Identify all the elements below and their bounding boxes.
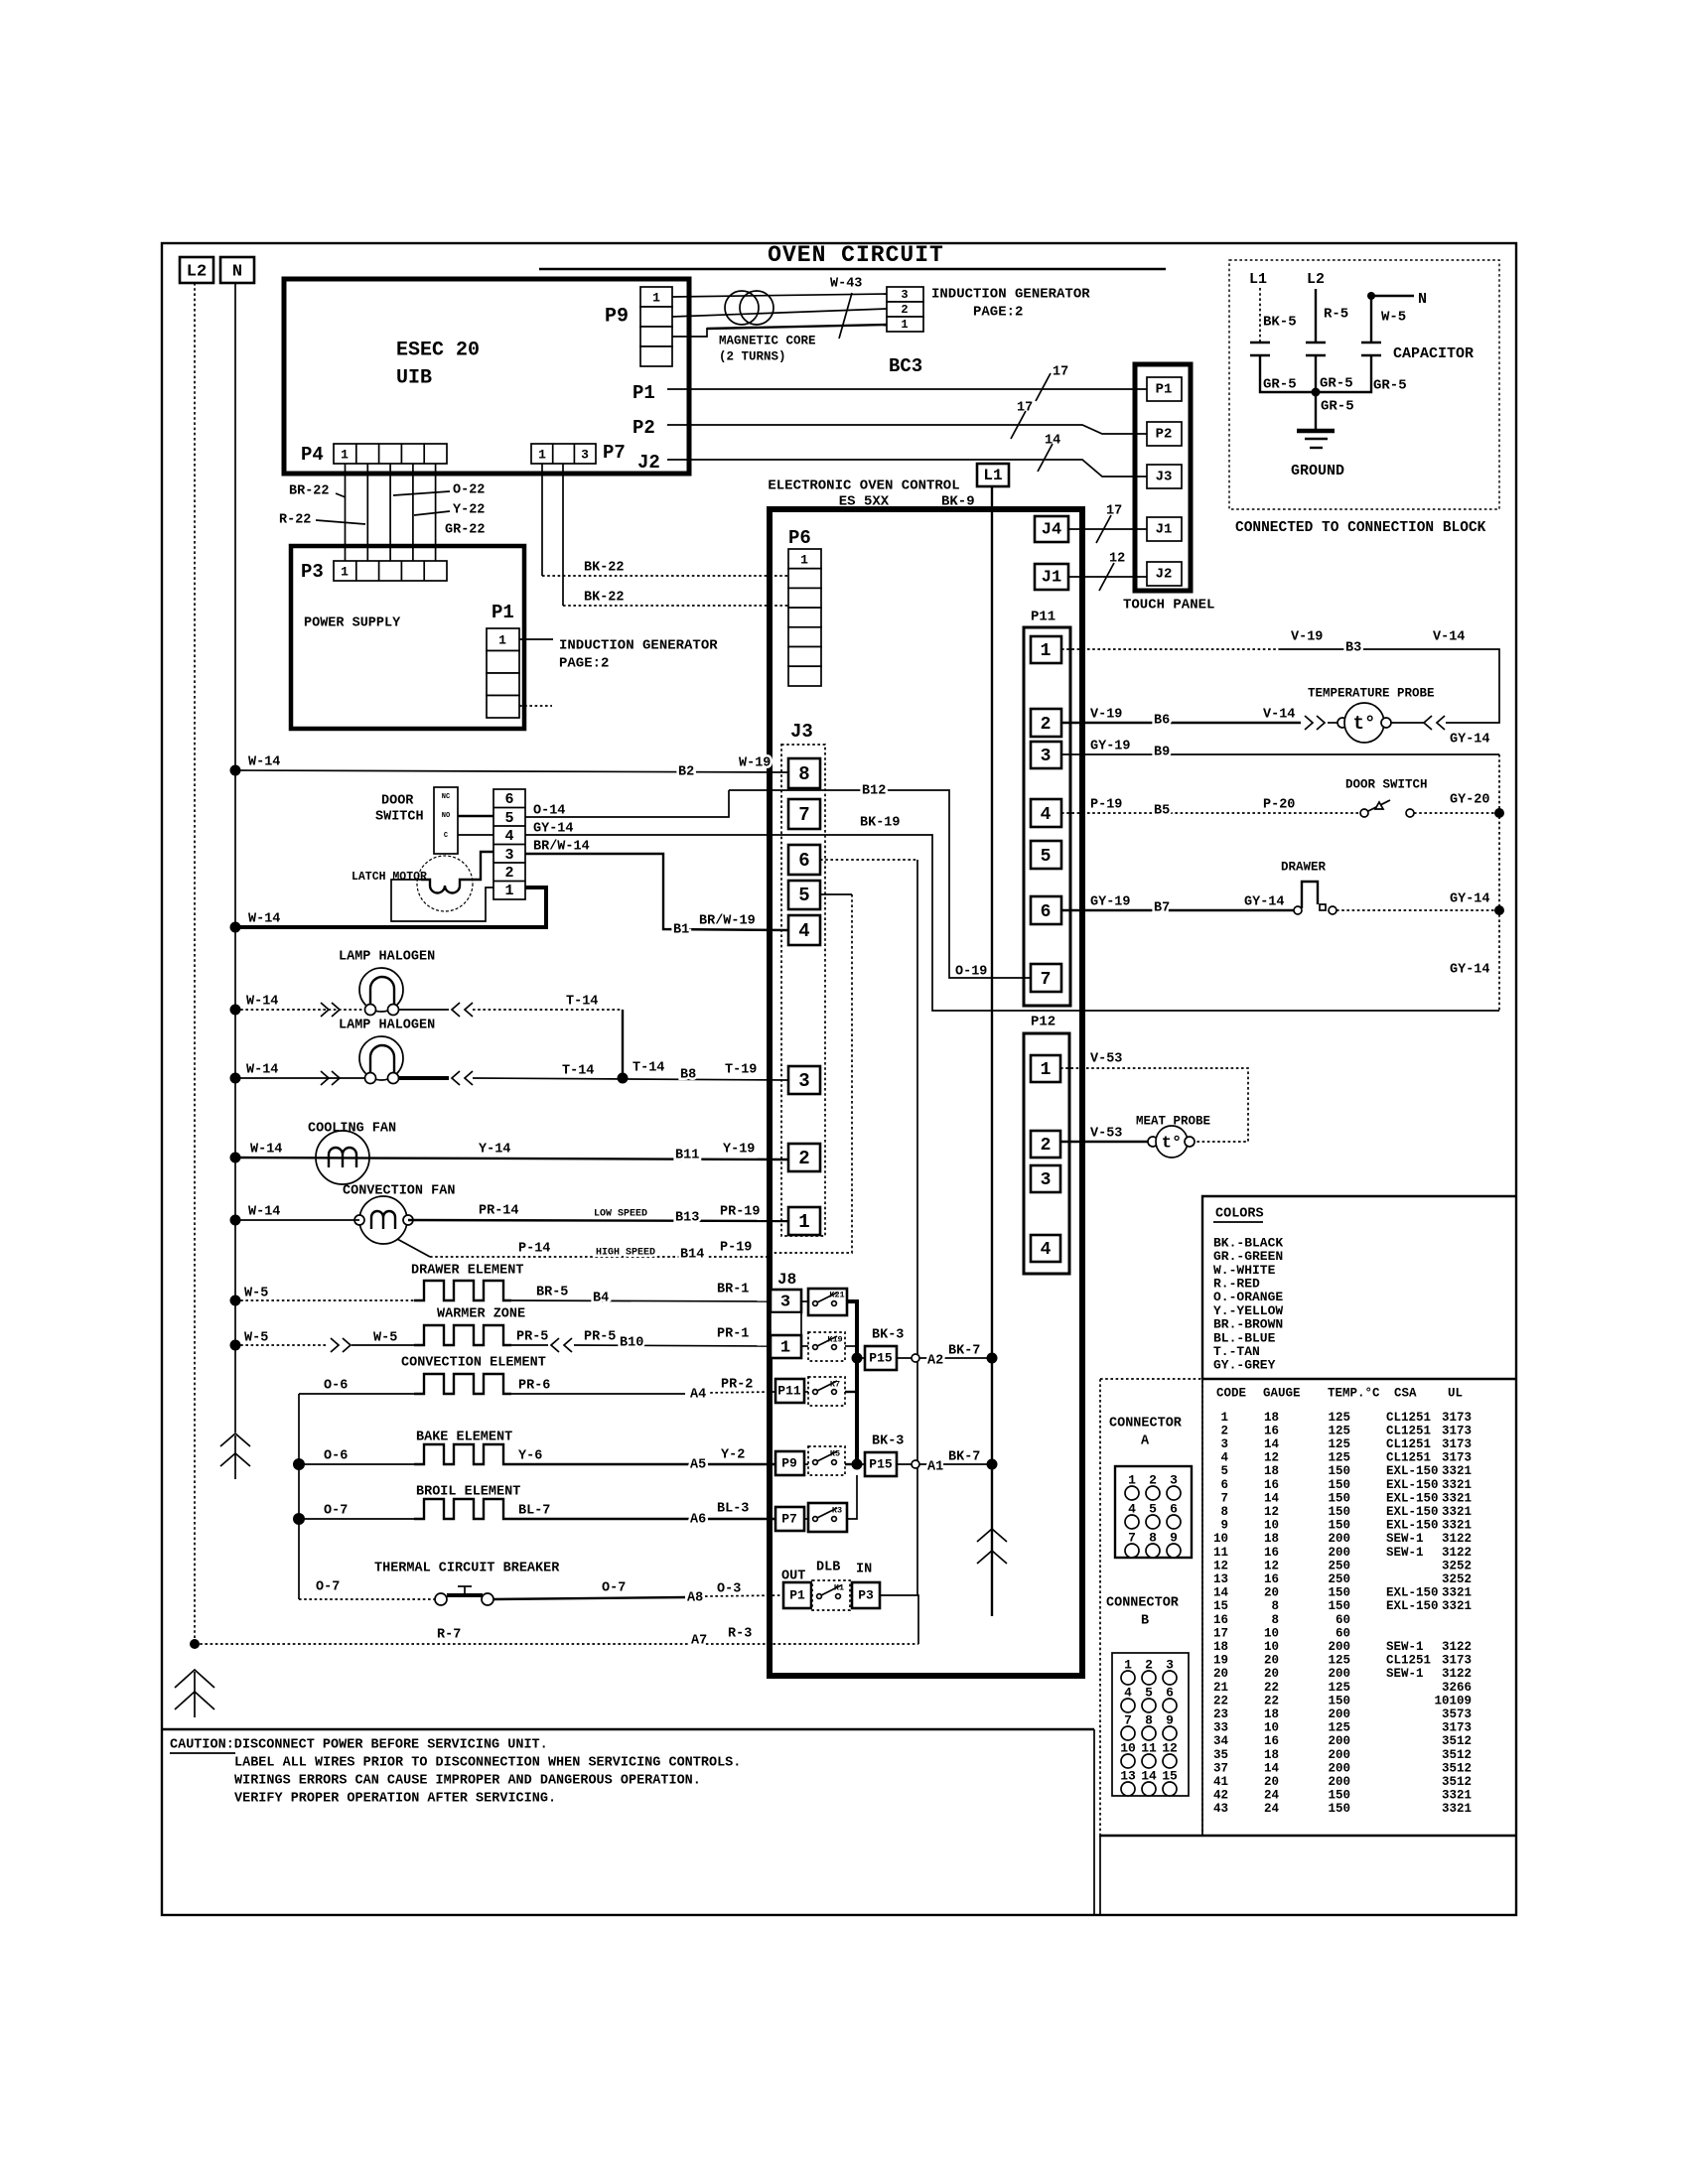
- wire P11-2 to temperature probe: [1061, 722, 1424, 724]
- wire O-6 bus vertical: [298, 1394, 300, 1599]
- svg-text:A7: A7: [691, 1634, 707, 1649]
- wire P1 pin1 to induction generator note: [519, 638, 553, 640]
- svg-text:P2: P2: [633, 417, 655, 439]
- svg-text:A4: A4: [690, 1388, 706, 1403]
- svg-text:3512: 3512: [1442, 1734, 1472, 1748]
- svg-text:CL1251: CL1251: [1386, 1654, 1431, 1668]
- bundle slash 12 (J1 line): [1099, 552, 1125, 591]
- svg-text:BL-3: BL-3: [717, 1502, 749, 1517]
- svg-text:200: 200: [1328, 1640, 1350, 1654]
- broil element: [414, 1499, 511, 1519]
- chevrons warmer left: [331, 1338, 351, 1352]
- svg-text:3122: 3122: [1442, 1546, 1472, 1560]
- node L1 box: [977, 464, 1009, 486]
- svg-text:1: 1: [1220, 1411, 1228, 1425]
- wire lamp2 row left: [235, 1077, 364, 1079]
- P12 pin 2: [1031, 1131, 1060, 1158]
- connector P11 (relay input): [775, 1379, 804, 1403]
- wire lamp1 row left: [235, 1009, 364, 1011]
- svg-text:200: 200: [1328, 1532, 1350, 1546]
- svg-text:200: 200: [1328, 1546, 1350, 1560]
- convection fan motor: [354, 1196, 413, 1244]
- TOUCH PANEL box: [1123, 364, 1214, 614]
- svg-text:B1: B1: [673, 923, 689, 938]
- svg-text:BR/W-14: BR/W-14: [533, 840, 590, 855]
- svg-text:LAMP HALOGEN: LAMP HALOGEN: [339, 950, 435, 965]
- svg-text:P6: P6: [788, 527, 811, 549]
- svg-text:19: 19: [1213, 1654, 1228, 1668]
- svg-text:150: 150: [1328, 1694, 1350, 1707]
- svg-text:4: 4: [1041, 1240, 1052, 1260]
- connector P11 on EOC: [1024, 610, 1070, 1006]
- wire J8-1 to K19: [801, 1345, 808, 1347]
- svg-text:24: 24: [1264, 1789, 1280, 1803]
- wires P4 to P3: [346, 464, 436, 561]
- P11 pin 4: [1031, 799, 1061, 827]
- svg-text:PR-19: PR-19: [720, 1205, 761, 1220]
- relay K5: [808, 1446, 845, 1475]
- svg-text:J3: J3: [790, 721, 813, 743]
- svg-text:200: 200: [1328, 1667, 1350, 1681]
- svg-text:B9: B9: [1154, 746, 1170, 760]
- svg-text:B13: B13: [675, 1211, 699, 1226]
- svg-text:33: 33: [1213, 1721, 1228, 1735]
- svg-text:7: 7: [798, 804, 809, 826]
- wire ESEC P1 to touch panel P1: [667, 388, 1147, 390]
- svg-text:5: 5: [798, 885, 809, 906]
- svg-text:PR-14: PR-14: [479, 1204, 519, 1219]
- DOOR SWITCH (latch) label: [375, 794, 424, 825]
- svg-text:BK-3: BK-3: [872, 1434, 904, 1449]
- svg-text:18: 18: [1264, 1707, 1279, 1721]
- connector A pin diagram: [1115, 1466, 1192, 1558]
- svg-text:43: 43: [1213, 1802, 1228, 1816]
- svg-text:3266: 3266: [1442, 1681, 1472, 1695]
- svg-text:CONNECTOR: CONNECTOR: [1106, 1596, 1180, 1611]
- junction warmer zone: [230, 1340, 241, 1351]
- wire P3 to R-3 return: [880, 1595, 918, 1644]
- svg-text:3: 3: [581, 447, 589, 462]
- svg-text:150: 150: [1328, 1802, 1350, 1816]
- svg-text:GR-22: GR-22: [445, 523, 486, 538]
- svg-text:17: 17: [1213, 1626, 1228, 1640]
- svg-text:P2: P2: [1156, 427, 1173, 443]
- N bus end arrow: [220, 1433, 250, 1479]
- svg-text:GR-5: GR-5: [1320, 376, 1353, 392]
- relay K21: [808, 1289, 847, 1315]
- svg-text:PR-1: PR-1: [717, 1327, 749, 1342]
- svg-text:P15: P15: [869, 1350, 893, 1365]
- svg-text:BK-19: BK-19: [860, 816, 901, 831]
- svg-text:37: 37: [1213, 1761, 1228, 1775]
- svg-text:ESEC 20: ESEC 20: [396, 339, 480, 361]
- svg-text:Y-2: Y-2: [721, 1448, 745, 1463]
- capacitor C3: [1361, 342, 1381, 355]
- svg-text:GR-5: GR-5: [1263, 377, 1297, 393]
- COLORS legend box: [1202, 1196, 1516, 1379]
- svg-text:CL1251: CL1251: [1386, 1451, 1431, 1465]
- svg-text:7: 7: [1220, 1491, 1228, 1505]
- wire P11-1 B3 loop: [1061, 649, 1499, 723]
- svg-text:B8: B8: [680, 1068, 696, 1083]
- svg-text:W-14: W-14: [248, 755, 280, 770]
- svg-text:P-14: P-14: [518, 1242, 550, 1257]
- svg-text:P9: P9: [781, 1455, 797, 1470]
- svg-text:1: 1: [504, 883, 513, 899]
- junction relay bus at P15-A1: [852, 1459, 863, 1470]
- svg-text:SWITCH: SWITCH: [375, 810, 424, 825]
- svg-text:10: 10: [1264, 1721, 1279, 1735]
- touch panel pin J3: [1147, 465, 1182, 488]
- svg-text:DRAWER ELEMENT: DRAWER ELEMENT: [411, 1264, 523, 1279]
- svg-text:O-7: O-7: [316, 1580, 340, 1595]
- svg-text:6: 6: [798, 850, 809, 872]
- svg-text:3: 3: [901, 288, 908, 302]
- J3 pin 1: [788, 1207, 820, 1235]
- thermal circuit breaker: [435, 1586, 493, 1605]
- connector P6 on EOC: [788, 527, 821, 686]
- svg-text:12: 12: [1213, 1559, 1228, 1572]
- svg-text:t°: t°: [1162, 1134, 1182, 1153]
- wire label BR-22: [289, 484, 346, 499]
- svg-text:3: 3: [1041, 1170, 1052, 1190]
- svg-text:3: 3: [1041, 747, 1052, 766]
- svg-text:1: 1: [498, 632, 506, 647]
- svg-text:O-14: O-14: [533, 804, 565, 819]
- svg-text:DRAWER: DRAWER: [1281, 860, 1327, 874]
- P11 pin 6: [1031, 896, 1061, 924]
- svg-text:3: 3: [504, 847, 513, 864]
- svg-text:J3: J3: [1156, 470, 1173, 485]
- wire N lead: [1371, 296, 1414, 341]
- wire code table frame: [1100, 1379, 1516, 1915]
- svg-text:3321: 3321: [1442, 1599, 1472, 1613]
- wire thick W-14 return from cell1: [235, 887, 546, 927]
- svg-text:125: 125: [1328, 1437, 1350, 1451]
- wire lamp1 row right: [399, 1009, 623, 1011]
- svg-text:INDUCTION GENERATOR: INDUCTION GENERATOR: [931, 287, 1090, 303]
- chevrons lamp2 right: [452, 1071, 473, 1085]
- svg-text:P1: P1: [633, 382, 655, 404]
- svg-text:150: 150: [1328, 1478, 1350, 1492]
- svg-text:PAGE:2: PAGE:2: [973, 305, 1023, 321]
- svg-text:J1: J1: [1042, 568, 1061, 587]
- svg-text:14: 14: [1045, 434, 1060, 449]
- junction ground bus: [1312, 388, 1321, 397]
- J3 pin 4: [788, 915, 820, 945]
- svg-text:200: 200: [1328, 1748, 1350, 1762]
- svg-text:BAKE ELEMENT: BAKE ELEMENT: [416, 1431, 512, 1445]
- svg-text:CONNECTOR: CONNECTOR: [1109, 1417, 1183, 1432]
- svg-text:A: A: [1141, 1434, 1150, 1449]
- svg-text:3252: 3252: [1442, 1559, 1472, 1572]
- wire P12-2 to meat probe: [1060, 1141, 1148, 1143]
- svg-text:L2: L2: [187, 262, 207, 281]
- wire R-7 neutral return row: [195, 1643, 918, 1645]
- junction lamp2: [230, 1073, 241, 1084]
- wire latch motor left U-route to cell1 left: [391, 880, 493, 921]
- svg-text:W-14: W-14: [246, 1063, 278, 1078]
- junction relay bus at P15-A2: [852, 1353, 863, 1364]
- svg-text:16: 16: [1264, 1424, 1279, 1437]
- svg-text:BC3: BC3: [889, 355, 922, 377]
- drawer switch: [1294, 882, 1336, 914]
- svg-text:6: 6: [1041, 902, 1052, 922]
- wire W-14 row to J3 pin8 (B2/W-19): [235, 770, 788, 772]
- svg-text:B5: B5: [1154, 804, 1170, 819]
- svg-text:O-19: O-19: [955, 965, 987, 980]
- junction broil: [293, 1513, 305, 1525]
- svg-text:16: 16: [1264, 1478, 1279, 1492]
- svg-text:2: 2: [901, 303, 908, 317]
- wire P15 to A2 junction: [897, 1357, 992, 1359]
- svg-text:CONNECTED TO CONNECTION BLOCK: CONNECTED TO CONNECTION BLOCK: [1235, 520, 1486, 536]
- svg-text:INDUCTION GENERATOR: INDUCTION GENERATOR: [559, 638, 718, 654]
- svg-text:22: 22: [1264, 1681, 1279, 1695]
- svg-text:18: 18: [1264, 1748, 1279, 1762]
- wire K3 output riser: [847, 1475, 857, 1519]
- svg-text:17: 17: [1053, 365, 1068, 380]
- svg-text:PR-2: PR-2: [721, 1378, 753, 1393]
- cooling fan motor: [316, 1131, 369, 1184]
- svg-text:B2: B2: [678, 765, 694, 780]
- svg-text:O-6: O-6: [324, 1449, 348, 1464]
- svg-text:IN: IN: [856, 1563, 872, 1577]
- svg-text:P7: P7: [781, 1511, 797, 1526]
- junction GY right door: [1494, 808, 1504, 818]
- svg-text:60: 60: [1336, 1613, 1350, 1627]
- svg-text:125: 125: [1328, 1424, 1350, 1437]
- svg-text:150: 150: [1328, 1599, 1350, 1613]
- svg-text:14: 14: [1213, 1586, 1229, 1600]
- wire K7 output: [845, 1391, 857, 1393]
- wire label GR-22: [445, 523, 486, 538]
- svg-text:DOOR: DOOR: [381, 794, 414, 809]
- wire label O-22: [393, 483, 485, 498]
- svg-text:1: 1: [341, 564, 349, 579]
- svg-text:3173: 3173: [1442, 1411, 1472, 1425]
- svg-text:3321: 3321: [1442, 1519, 1472, 1533]
- svg-text:J1: J1: [1156, 522, 1173, 538]
- door switch body: [434, 787, 458, 854]
- svg-text:5: 5: [1041, 847, 1052, 867]
- junction cooling fan: [230, 1153, 241, 1163]
- svg-text:200: 200: [1328, 1734, 1350, 1748]
- svg-text:3321: 3321: [1442, 1505, 1472, 1519]
- svg-text:VERIFY PROPER OPERATION AFTER: VERIFY PROPER OPERATION AFTER SERVICING.: [234, 1792, 556, 1807]
- svg-text:SEW-1: SEW-1: [1386, 1532, 1424, 1546]
- svg-text:18: 18: [1264, 1464, 1279, 1478]
- svg-text:J4: J4: [1042, 520, 1061, 539]
- wire warmer zone row: [235, 1345, 771, 1346]
- svg-text:150: 150: [1328, 1586, 1350, 1600]
- connector P15 (A1): [857, 1452, 897, 1476]
- svg-text:SEW-1: SEW-1: [1386, 1640, 1424, 1654]
- svg-text:250: 250: [1328, 1559, 1350, 1572]
- wire K21 output to relay bus: [847, 1301, 857, 1464]
- svg-text:GY-14: GY-14: [1450, 892, 1490, 907]
- svg-text:125: 125: [1328, 1451, 1350, 1465]
- wire ESEC J2 to touch panel J3: [667, 460, 1147, 477]
- svg-text:2: 2: [1220, 1424, 1228, 1437]
- wire K5 output: [845, 1463, 857, 1465]
- svg-text:3173: 3173: [1442, 1424, 1472, 1437]
- svg-text:BR/W-19: BR/W-19: [699, 914, 756, 929]
- connector J1 on EOC: [1035, 564, 1068, 590]
- svg-text:5: 5: [504, 810, 513, 827]
- svg-text:P1: P1: [1156, 382, 1173, 398]
- svg-text:22: 22: [1264, 1694, 1279, 1707]
- svg-text:3321: 3321: [1442, 1491, 1472, 1505]
- svg-text:15: 15: [1213, 1599, 1228, 1613]
- svg-text:CL1251: CL1251: [1386, 1411, 1431, 1425]
- connector P3 (DLB in): [852, 1582, 880, 1608]
- svg-text:42: 42: [1213, 1789, 1228, 1803]
- svg-text:O-6: O-6: [324, 1379, 348, 1394]
- wire ESEC P2 to touch panel P2: [667, 425, 1147, 434]
- svg-text:P4: P4: [301, 444, 324, 466]
- junction BK-7 bus A2: [987, 1353, 998, 1364]
- svg-text:3173: 3173: [1442, 1451, 1472, 1465]
- svg-text:N: N: [1418, 291, 1427, 308]
- wire P11-6 B7 drawer switch: [1061, 909, 1499, 911]
- svg-text:O-3: O-3: [717, 1582, 741, 1597]
- connector J4 on EOC: [1035, 516, 1068, 542]
- J3 pin 5: [788, 881, 820, 909]
- svg-text:LAMP HALOGEN: LAMP HALOGEN: [339, 1019, 435, 1033]
- capacitor C2: [1306, 342, 1326, 355]
- svg-text:5: 5: [1220, 1464, 1228, 1478]
- svg-text:GY-14: GY-14: [1450, 963, 1490, 978]
- chevrons temp probe right: [1424, 716, 1445, 730]
- svg-text:EXL-150: EXL-150: [1386, 1586, 1439, 1600]
- svg-text:14: 14: [1264, 1761, 1280, 1775]
- svg-text:P1: P1: [789, 1587, 805, 1602]
- svg-text:PR-6: PR-6: [518, 1379, 550, 1394]
- svg-text:3321: 3321: [1442, 1802, 1472, 1816]
- svg-text:3321: 3321: [1442, 1464, 1472, 1478]
- svg-text:4: 4: [798, 920, 809, 942]
- svg-text:P12: P12: [1031, 1015, 1055, 1030]
- L2 bus end arrow: [175, 1670, 214, 1717]
- hop circle A2: [912, 1354, 919, 1362]
- svg-text:COLORS: COLORS: [1215, 1207, 1264, 1222]
- svg-text:P-19: P-19: [720, 1241, 752, 1256]
- P12 pin 1: [1031, 1055, 1060, 1082]
- svg-text:3321: 3321: [1442, 1586, 1472, 1600]
- svg-text:BROIL ELEMENT: BROIL ELEMENT: [416, 1485, 520, 1500]
- svg-text:3122: 3122: [1442, 1640, 1472, 1654]
- svg-text:CONVECTION FAN: CONVECTION FAN: [343, 1184, 455, 1199]
- svg-text:EXL-150: EXL-150: [1386, 1491, 1439, 1505]
- svg-text:DLB: DLB: [816, 1561, 840, 1575]
- svg-text:P11: P11: [1031, 610, 1055, 625]
- svg-text:6: 6: [504, 791, 513, 808]
- svg-text:GY-14: GY-14: [1244, 895, 1285, 910]
- wire P11-4 B5 door switch: [1061, 812, 1499, 814]
- wire door switch C to cell4: [458, 834, 493, 836]
- wire latch motor right to cell3: [469, 852, 493, 880]
- svg-text:TOUCH PANEL: TOUCH PANEL: [1123, 598, 1214, 614]
- svg-text:P3: P3: [858, 1587, 874, 1602]
- svg-text:17: 17: [1017, 401, 1033, 416]
- svg-text:16: 16: [1264, 1734, 1279, 1748]
- connector P7 (relay input): [775, 1507, 804, 1531]
- J3 dotted outline: [781, 745, 825, 1236]
- chevrons lamp1 left: [321, 1003, 340, 1017]
- svg-text:20: 20: [1264, 1654, 1279, 1668]
- touch panel pin P1: [1147, 377, 1182, 401]
- svg-text:A1: A1: [927, 1460, 943, 1475]
- svg-text:GROUND: GROUND: [1291, 463, 1344, 479]
- chevrons lamp2 left: [321, 1071, 340, 1085]
- connector P7 on ESEC: [531, 442, 626, 464]
- svg-text:TEMP.°C: TEMP.°C: [1328, 1386, 1380, 1400]
- svg-text:BL-7: BL-7: [518, 1504, 550, 1519]
- label INDUCTION GENERATOR PAGE:2 (power supply): [559, 638, 718, 672]
- wire J1 to touch panel J2: [1068, 576, 1147, 578]
- svg-text:3122: 3122: [1442, 1532, 1472, 1546]
- svg-text:DOOR SWITCH: DOOR SWITCH: [1345, 777, 1428, 791]
- wire convection fan row: [235, 1220, 788, 1221]
- svg-text:Y-14: Y-14: [479, 1143, 510, 1158]
- svg-text:150: 150: [1328, 1519, 1350, 1533]
- svg-text:B6: B6: [1154, 714, 1170, 729]
- POWER SUPPLY box: [291, 546, 524, 729]
- svg-text:W-5: W-5: [373, 1331, 397, 1346]
- svg-text:R-3: R-3: [728, 1627, 752, 1642]
- svg-text:R-22: R-22: [279, 513, 311, 528]
- svg-text:O-7: O-7: [602, 1581, 626, 1596]
- svg-text:10: 10: [1264, 1640, 1279, 1654]
- J3 pin 8: [788, 758, 820, 788]
- svg-text:11: 11: [1213, 1546, 1228, 1560]
- caution text: [170, 1738, 741, 1807]
- svg-text:60: 60: [1336, 1626, 1350, 1640]
- svg-text:CAPACITOR: CAPACITOR: [1393, 345, 1474, 362]
- svg-text:CL1251: CL1251: [1386, 1437, 1431, 1451]
- table header: [1216, 1386, 1463, 1400]
- svg-text:CODE: CODE: [1216, 1386, 1246, 1400]
- svg-text:3321: 3321: [1442, 1789, 1472, 1803]
- label W-43 with pointer: [830, 277, 862, 339]
- svg-text:GY.-GREY: GY.-GREY: [1213, 1358, 1276, 1373]
- svg-text:23: 23: [1213, 1707, 1228, 1721]
- svg-text:200: 200: [1328, 1775, 1350, 1789]
- wire bake element row: [299, 1463, 775, 1465]
- svg-text:200: 200: [1328, 1707, 1350, 1721]
- svg-text:P11: P11: [777, 1383, 801, 1398]
- svg-text:(2 TURNS): (2 TURNS): [719, 349, 786, 363]
- bundle slash 17 (P2 line): [1011, 401, 1033, 439]
- warmer zone element: [414, 1325, 511, 1345]
- svg-text:THERMAL CIRCUIT BREAKER: THERMAL CIRCUIT BREAKER: [374, 1562, 560, 1576]
- svg-text:3: 3: [1220, 1437, 1228, 1451]
- svg-text:8: 8: [1271, 1599, 1279, 1613]
- CAPACITOR CONNECTION BLOCK dotted box: [1229, 260, 1499, 509]
- svg-text:12: 12: [1264, 1505, 1279, 1519]
- svg-text:1: 1: [538, 447, 546, 462]
- svg-text:125: 125: [1328, 1654, 1350, 1668]
- svg-text:B7: B7: [1154, 901, 1170, 916]
- svg-text:A5: A5: [690, 1458, 706, 1473]
- wire P15 to A1 junction: [897, 1463, 992, 1465]
- svg-text:3173: 3173: [1442, 1721, 1472, 1735]
- svg-text:BK-7: BK-7: [948, 1450, 980, 1465]
- CONNECTOR A label: [1109, 1417, 1183, 1449]
- svg-text:J2: J2: [637, 452, 660, 474]
- svg-text:WIRINGS ERRORS CAN CAUSE IMPRO: WIRINGS ERRORS CAN CAUSE IMPROPER AND DA…: [234, 1774, 701, 1789]
